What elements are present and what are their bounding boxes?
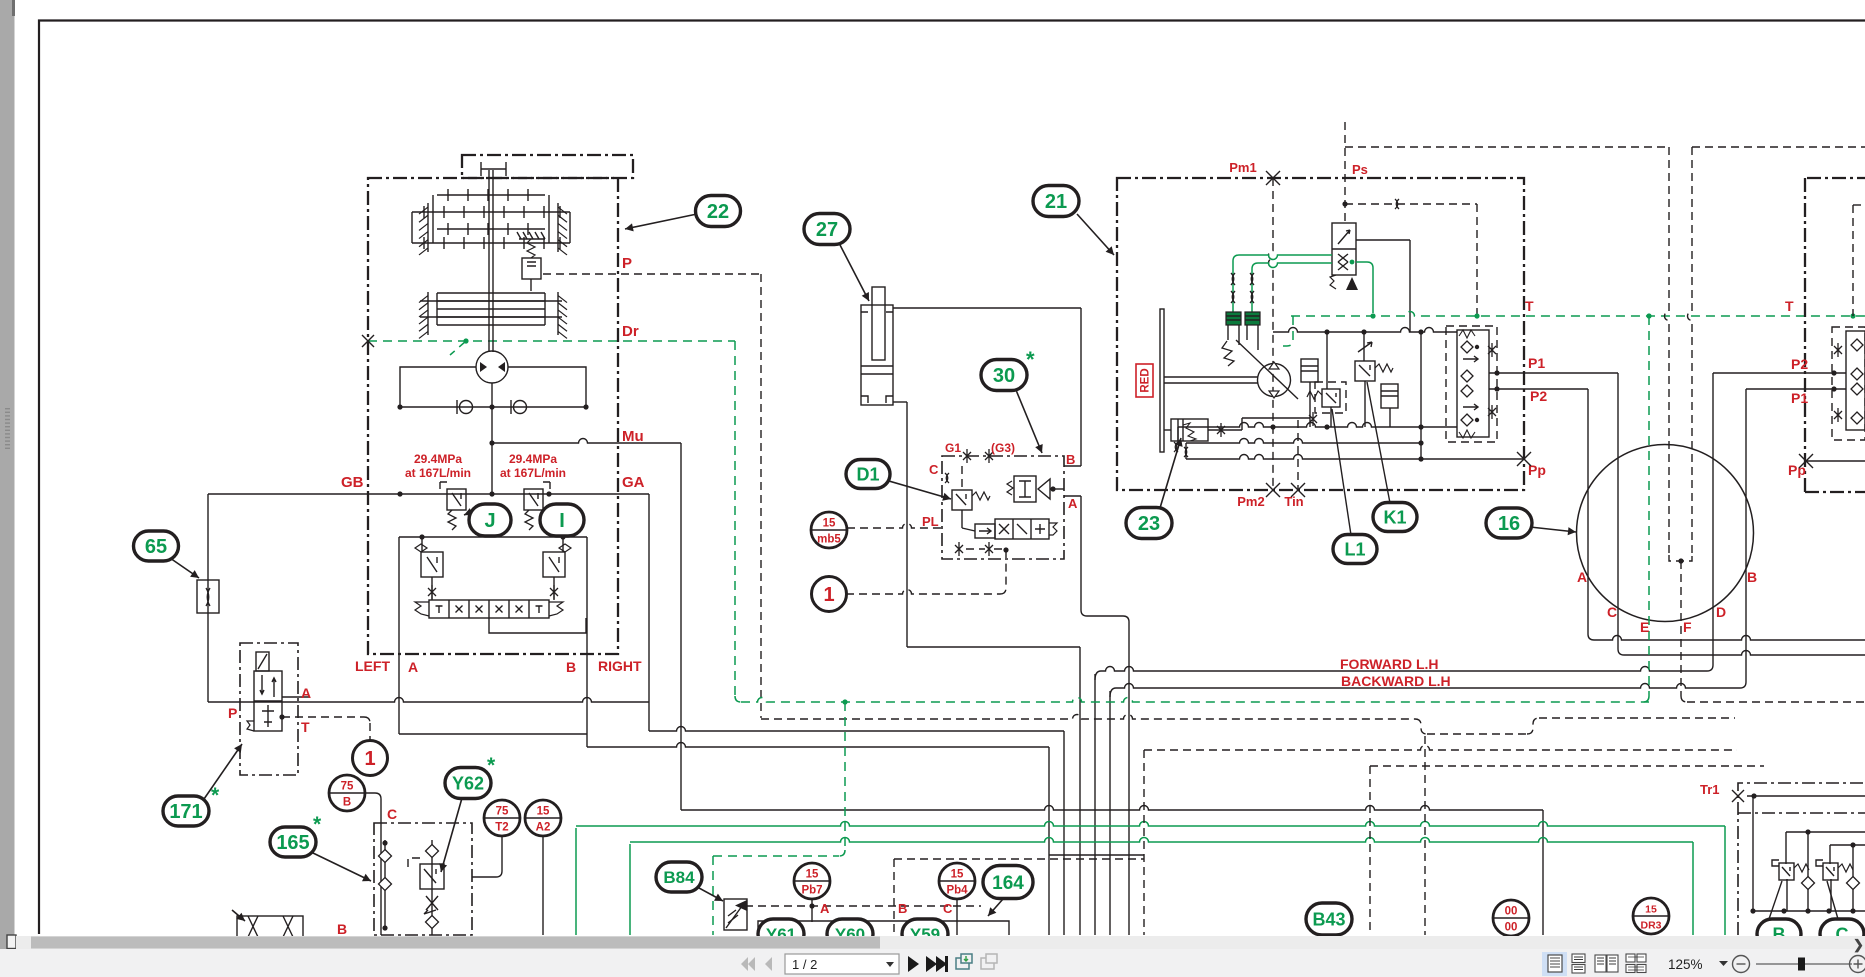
svg-text:1: 1	[364, 748, 375, 770]
wire vertical x907	[906, 402, 908, 647]
prev view icon	[956, 958, 969, 969]
restrictor 65 body	[197, 580, 219, 613]
lube relief valve	[519, 238, 545, 240]
wire P1 left pump	[1489, 372, 1618, 374]
wire vertical x1081 upper	[1080, 308, 1082, 466]
X mark on drain line	[362, 335, 374, 347]
svg-text:1: 1	[823, 584, 834, 606]
green pilot wires	[1233, 255, 1332, 312]
dashed vertical x1425	[1424, 736, 1426, 935]
page number box	[785, 954, 899, 974]
node 15/DR3	[1633, 898, 1669, 934]
Tr1 reducing valve B	[1779, 863, 1794, 880]
callout oval L1	[1332, 409, 1351, 535]
callout oval J	[464, 508, 478, 515]
Pp internal line	[1186, 455, 1421, 460]
wire lower loop y702	[208, 698, 649, 703]
svg-text:A: A	[1577, 569, 1587, 585]
wire BACKWARD line y688	[1110, 688, 1119, 697]
nav next page icon	[908, 956, 919, 972]
svg-text:B: B	[1747, 569, 1757, 585]
input shaft symbol	[481, 162, 506, 176]
right pump dashed stub	[1852, 205, 1854, 316]
svg-text:T2: T2	[495, 822, 508, 834]
dashed vertical x1144	[1143, 750, 1145, 935]
svg-text:15: 15	[806, 869, 819, 881]
callout oval 171	[204, 744, 242, 799]
gear shaft	[489, 170, 493, 352]
load sense valve assembly	[1446, 326, 1497, 442]
callout oval B43	[1328, 930, 1330, 936]
green dashed vertical x845	[844, 702, 846, 850]
dashed vertical x761	[760, 274, 762, 718]
dashed link y766	[1370, 765, 1764, 767]
accumulator 2	[1381, 384, 1398, 408]
nav last page icon	[926, 956, 937, 972]
solenoid valve Y61	[758, 919, 804, 949]
callout oval 21	[1077, 214, 1114, 255]
svg-text:P: P	[228, 705, 237, 721]
green dashed enclosure B84	[712, 856, 714, 935]
svg-text:*: *	[211, 784, 220, 807]
valve drain link	[489, 618, 586, 633]
svg-text:P2: P2	[1791, 356, 1808, 372]
swash control arrow	[1236, 340, 1298, 399]
svg-text:C: C	[1607, 604, 1617, 620]
shuttle valve right	[1014, 476, 1036, 502]
svg-text:D: D	[1716, 604, 1726, 620]
svg-text:165: 165	[276, 832, 309, 854]
dashed vertical x1370	[1369, 766, 1371, 935]
wire Mu bus y810	[681, 806, 1543, 811]
callout oval C	[1820, 919, 1864, 949]
svg-text:at 167L/min: at 167L/min	[500, 466, 566, 480]
wire vertical x1081 lower + jog to x1129	[1081, 496, 1129, 935]
valve 165 enclosure	[374, 823, 472, 935]
swash spring	[1222, 341, 1234, 366]
svg-text:29.4MPa: 29.4MPa	[414, 452, 462, 466]
svg-text:G1: G1	[945, 441, 961, 455]
svg-text:16: 16	[1498, 513, 1520, 535]
svg-text:C: C	[943, 901, 953, 916]
Tr1 reducing valve C	[1823, 863, 1838, 880]
callout oval 27	[839, 243, 869, 301]
gear housing wall right	[557, 203, 559, 252]
svg-text:A: A	[301, 685, 311, 701]
svg-text:*: *	[487, 754, 496, 777]
valve Y18 body	[254, 671, 282, 731]
callout oval 22	[625, 214, 697, 231]
coil restrictors	[1231, 273, 1234, 285]
pilot directional valve	[995, 519, 1049, 539]
svg-text:K1: K1	[1383, 507, 1406, 527]
valve Y18 enclosure	[240, 643, 298, 775]
right pump block enclosure	[1805, 178, 1865, 492]
relief valve K1 target	[1363, 332, 1365, 361]
svg-text:D1: D1	[856, 464, 879, 484]
svg-text:Pb7: Pb7	[801, 885, 822, 897]
RED flag	[1136, 364, 1153, 397]
wire bus y731	[649, 727, 1064, 732]
green dashed vertical x735	[734, 341, 736, 696]
svg-text:P1: P1	[1791, 390, 1808, 406]
wire vertical x1588 through brake circle	[1588, 389, 1611, 640]
svg-text:Ps: Ps	[1352, 162, 1368, 177]
green dashed link y856	[713, 855, 839, 857]
check valve left	[460, 401, 473, 414]
pilot node 15/mb5	[847, 524, 942, 529]
svg-text:C: C	[387, 806, 397, 822]
toolbar background	[0, 949, 1865, 977]
green wire box 2	[629, 844, 631, 935]
wire motor loop	[400, 367, 586, 407]
wire vertical x1713	[1707, 373, 1713, 671]
svg-text:Tr1: Tr1	[1700, 782, 1720, 797]
callout oval B	[1757, 919, 1801, 949]
svg-text:C: C	[929, 462, 939, 477]
Tr1 bottom bus	[1753, 910, 1865, 912]
svg-text:Y62: Y62	[452, 773, 484, 793]
solenoid valve Y60	[827, 919, 873, 949]
continuous mode icon	[1572, 954, 1585, 963]
wire motor shaft to GA	[491, 383, 493, 494]
accumulator 1	[1301, 359, 1318, 382]
zoom out button	[1733, 956, 1750, 973]
node 75/B	[365, 793, 381, 935]
callout oval D1	[889, 481, 951, 501]
green wire box 1	[575, 828, 577, 935]
wire cylinder top line	[893, 307, 1081, 309]
tank return green dashed T-line	[1291, 312, 1865, 317]
svg-text:RED: RED	[1140, 368, 1152, 392]
wire FORWARD line y671	[1095, 671, 1104, 680]
svg-text:FORWARD L.H: FORWARD L.H	[1340, 656, 1439, 672]
svg-text:P2: P2	[1530, 388, 1547, 404]
svg-text:T: T	[1525, 298, 1534, 314]
Pm1 dashed sense line	[1269, 178, 1274, 490]
svg-text:B: B	[337, 921, 347, 937]
valve block 30 enclosure	[942, 456, 1064, 559]
svg-text:Dr: Dr	[622, 323, 639, 340]
dashed solenoid bus y906	[745, 905, 981, 907]
solenoid coil blocks	[1226, 312, 1241, 325]
svg-text:125%: 125%	[1668, 957, 1703, 972]
node 75/T2	[472, 836, 502, 877]
svg-text:B: B	[898, 901, 907, 916]
svg-text:GB: GB	[341, 474, 364, 491]
wire bundle vertical x1049	[1048, 747, 1050, 935]
green dot on drain line	[463, 338, 468, 343]
parking dashed bus y702	[1687, 701, 1865, 703]
svg-text:A: A	[408, 659, 418, 675]
callout oval I	[541, 506, 550, 514]
svg-text:15: 15	[1645, 904, 1657, 916]
svg-text:B: B	[343, 797, 351, 809]
svg-text:65: 65	[145, 536, 167, 558]
single page mode icon (active)	[1542, 952, 1567, 976]
zoom in button	[1850, 956, 1865, 973]
svg-text:B: B	[566, 659, 576, 675]
node 00/00	[1493, 900, 1529, 936]
wire bundle vertical x1064	[1063, 731, 1065, 935]
wire y855	[1049, 854, 1144, 856]
svg-text:L1: L1	[1344, 539, 1365, 559]
wire cylinder bottom line	[893, 401, 907, 403]
svg-text:15: 15	[951, 869, 964, 881]
Tr1 enclosure dash-dot	[1738, 783, 1865, 935]
svg-text:B43: B43	[1312, 909, 1345, 929]
brake unit circle 16	[1577, 445, 1754, 622]
gear housing wall left	[427, 203, 429, 252]
manifold box	[758, 921, 1009, 935]
svg-text:00: 00	[1505, 922, 1518, 934]
control lever plate	[1160, 309, 1164, 452]
pilot node 1	[353, 741, 388, 776]
svg-text:PL: PL	[922, 514, 939, 529]
node 15/Pb7	[811, 899, 813, 922]
callout oval 65	[170, 558, 199, 578]
svg-text:75: 75	[496, 806, 509, 818]
svg-text:A: A	[820, 901, 830, 916]
wire P2 left pump	[1489, 388, 1588, 390]
wire Pp line right pump	[1806, 460, 1865, 462]
G3 port symbol	[985, 449, 993, 463]
wire y734	[399, 733, 587, 735]
check valve right	[514, 401, 527, 414]
callout oval B84	[699, 888, 723, 901]
wire y647	[907, 646, 1080, 648]
horizontal scrollbar	[16, 936, 1865, 949]
Tr1 branch 1 top	[1786, 831, 1865, 833]
pressure comp valve L1 target	[1315, 382, 1346, 413]
callout oval Y62	[439, 798, 462, 872]
Tr1 check diamonds	[1802, 877, 1815, 890]
internal drain line	[1186, 439, 1421, 444]
svg-text:30: 30	[993, 365, 1015, 387]
tank symbol line	[1356, 240, 1410, 332]
wire GA-GB loop left vertical	[207, 494, 209, 702]
svg-text:J: J	[484, 510, 495, 532]
wire vertical x1618 through brake circle	[1618, 373, 1624, 655]
hydraulic motor	[476, 351, 508, 383]
pilot valve right	[543, 552, 565, 577]
internal bus bottom	[1178, 423, 1446, 427]
callout oval 164	[988, 899, 1003, 916]
svg-text:*: *	[1026, 347, 1035, 372]
svg-text:Tin: Tin	[1284, 494, 1303, 509]
relief valve J	[440, 482, 447, 489]
wire bundle vertical x1095	[1094, 674, 1096, 935]
zoom slider	[1756, 963, 1852, 965]
svg-text:DR3: DR3	[1640, 920, 1661, 932]
svg-text:P: P	[622, 255, 632, 272]
callout oval 16	[1530, 527, 1576, 535]
wire GA line	[208, 493, 649, 495]
relief valve D1	[952, 490, 972, 510]
svg-text:15: 15	[823, 518, 836, 530]
svg-text:Pb4: Pb4	[946, 885, 968, 897]
parking dashed pair	[1665, 147, 1670, 555]
relief valve I	[543, 482, 550, 489]
svg-text:15: 15	[537, 806, 550, 818]
gear train upper	[437, 194, 545, 196]
block 30 bottom symbols	[955, 542, 963, 556]
svg-text:BACKWARD L.H: BACKWARD L.H	[1341, 673, 1451, 689]
svg-text:29.4MPa: 29.4MPa	[509, 452, 557, 466]
green dashed tank pilot	[1283, 316, 1293, 346]
dashed bus y719	[761, 715, 1415, 719]
svg-text:*: *	[313, 813, 322, 836]
svg-text:23: 23	[1138, 513, 1160, 535]
solenoid block B84	[724, 899, 747, 930]
callout oval 30	[1016, 390, 1043, 453]
svg-text:mb5: mb5	[817, 534, 841, 546]
svg-text:I: I	[559, 510, 565, 532]
svg-text:B84: B84	[663, 868, 695, 887]
Ps dashed supply	[1344, 122, 1346, 223]
green dashed through circle	[1648, 316, 1650, 696]
svg-text:❯: ❯	[1853, 937, 1864, 953]
callout oval 23	[1160, 438, 1183, 508]
nav prev page icon	[765, 957, 772, 971]
wire Mu line	[492, 439, 681, 444]
actuator outlet	[1208, 429, 1242, 431]
wire bundle vertical x1080	[1079, 647, 1081, 935]
filter unit bottom left	[237, 916, 303, 937]
svg-text:Mu: Mu	[622, 428, 644, 445]
svg-text:1 / 2: 1 / 2	[792, 957, 817, 972]
svg-text:00: 00	[1505, 906, 1518, 918]
svg-text:T: T	[1785, 298, 1794, 314]
input coupling box	[462, 155, 633, 178]
nav first page icon	[741, 957, 755, 971]
node 15/Pb4	[956, 899, 958, 935]
facing mode icon	[1595, 955, 1606, 972]
svg-text:Pm1: Pm1	[1229, 160, 1256, 175]
svg-text:171: 171	[169, 801, 202, 823]
svg-text:GA: GA	[622, 474, 645, 491]
svg-text:LEFT: LEFT	[355, 658, 390, 674]
sidebar handle button	[7, 935, 16, 949]
svg-text:F: F	[1683, 619, 1692, 635]
svg-text:Pm2: Pm2	[1237, 494, 1264, 509]
green drain dashed from gearbox	[368, 340, 735, 342]
pilot valve left	[421, 552, 443, 577]
right load sense assembly	[1832, 327, 1865, 440]
wire left A-line vertical x399	[398, 537, 400, 734]
svg-text:RIGHT: RIGHT	[598, 658, 642, 674]
Tin dashed line	[1297, 420, 1299, 490]
svg-text:A: A	[1068, 496, 1078, 511]
pilot solenoid valve	[1332, 223, 1356, 275]
solenoid valve Y59	[902, 919, 948, 949]
pilot node 1	[846, 590, 1000, 595]
wire right vertical x649	[648, 494, 650, 731]
svg-text:B: B	[1066, 452, 1075, 467]
wire P2 right pump	[1713, 372, 1846, 374]
svg-text:21: 21	[1045, 191, 1067, 213]
svg-text:T: T	[301, 719, 310, 735]
svg-text:Pp: Pp	[1528, 462, 1546, 478]
wire vertical x1746	[1740, 389, 1746, 688]
svg-text:A2: A2	[536, 822, 551, 834]
svg-text:164: 164	[992, 873, 1024, 894]
shift inner box top	[399, 536, 587, 538]
dashed enclosure around Y59 group	[893, 859, 895, 935]
svg-text:27: 27	[816, 219, 838, 241]
wire bus y747	[587, 743, 1049, 748]
green dashed bus y702	[741, 698, 1649, 703]
next view icon	[981, 958, 994, 969]
internal bus top	[1273, 328, 1446, 333]
Y18 T dashed line	[282, 716, 364, 718]
wire vertical x1543	[1542, 810, 1544, 935]
G1 port symbol	[963, 449, 971, 463]
clutch pack lower	[437, 292, 545, 294]
svg-text:E: E	[1640, 619, 1649, 635]
P pilot dashed line	[543, 273, 761, 275]
callout oval 165	[313, 853, 371, 881]
cylinder 27	[861, 305, 893, 405]
node 15/A2	[542, 836, 544, 935]
main pump	[1258, 364, 1291, 397]
directional control valve	[429, 600, 549, 618]
continuous facing icon	[1626, 954, 1635, 962]
Tr1 branch 2 top	[1830, 844, 1865, 846]
wire B-line vertical x587	[586, 537, 588, 747]
viewer left sidebar	[0, 0, 15, 949]
wire bundle vertical x1110	[1109, 691, 1111, 935]
callout oval K1	[1367, 382, 1390, 503]
wire P1 right pump	[1746, 388, 1846, 390]
pump block 21 enclosure	[1117, 178, 1524, 490]
svg-text:(G3): (G3)	[991, 441, 1015, 455]
drive shaft	[1164, 377, 1258, 383]
svg-text:P1: P1	[1528, 355, 1545, 371]
svg-text:22: 22	[707, 201, 729, 223]
svg-text:at 167L/min: at 167L/min	[405, 466, 471, 480]
valve 165 internals	[384, 840, 386, 930]
wire Pp line left pump	[1421, 458, 1524, 460]
servo actuator	[1171, 419, 1208, 441]
gearbox 22 enclosure	[368, 178, 618, 654]
Tr1 inner frame	[1752, 796, 1754, 911]
svg-text:75: 75	[341, 781, 354, 793]
wire Mu vertical x681	[680, 443, 682, 810]
dashed bus y750	[1144, 746, 1737, 751]
Tr1 feed line	[1747, 795, 1865, 797]
